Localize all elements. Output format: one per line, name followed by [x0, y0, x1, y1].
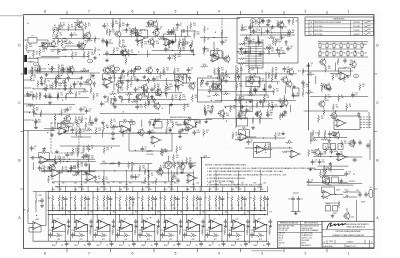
eq cell 630Hz cap Cb — [224, 219, 227, 224]
eq cell 63Hz resistor Ra — [97, 195, 99, 202]
resistor R262 — [75, 116, 77, 123]
resistor R347 — [173, 27, 175, 34]
eq cell rail dots — [177, 241, 178, 242]
eq cell input dot — [164, 214, 165, 215]
ground — [136, 78, 139, 81]
eq band cell 160Hz boundary wire — [137, 192, 139, 215]
wire rail — [46, 78, 80, 80]
capacitor C130 — [266, 28, 269, 33]
eq cell 25Hz resistor Rc — [55, 235, 62, 237]
eq band cell 630Hz boundary wire — [204, 192, 206, 215]
eq cell extra wire — [129, 202, 131, 210]
eq cell 160Hz wire b — [148, 202, 150, 210]
resistor R384 — [162, 149, 164, 156]
legend table outline — [278, 221, 323, 248]
eq cell 1KHz output wire — [243, 225, 245, 241]
capacitor C105 — [176, 23, 179, 28]
resistor R340 — [308, 149, 310, 156]
wire rail — [39, 71, 89, 73]
mid col box B — [241, 100, 253, 112]
wire top rail to r15 — [186, 30, 196, 32]
capacitor C120 — [119, 75, 122, 80]
chain x204 cap — [203, 46, 206, 51]
capacitor C149 — [30, 146, 33, 151]
eq cell 63Hz wire a — [97, 202, 99, 210]
junction — [123, 54, 124, 55]
junction dot — [29, 112, 30, 113]
resistor R317 — [122, 130, 124, 137]
lower mid resistor R39 — [89, 116, 91, 123]
feedback loop rectangle — [129, 133, 172, 151]
wire r15 top — [184, 36, 186, 40]
op-amp U3A — [184, 123, 196, 131]
U7A output wire — [250, 136, 256, 138]
right wire y183 — [339, 183, 362, 185]
resistor R381 — [325, 146, 327, 153]
capacitor C140 — [266, 112, 269, 117]
resistor R285 — [239, 96, 241, 103]
ground — [91, 74, 94, 77]
eq cell 630Hz wire c — [222, 201, 224, 214]
gnd right — [190, 49, 193, 52]
eq cell 100Hz wire b — [125, 202, 127, 210]
capacitor C124 — [136, 104, 139, 109]
box cap C20b — [248, 25, 251, 30]
resistor R284 — [222, 93, 229, 95]
junction — [330, 156, 331, 157]
resistor R367 — [235, 74, 237, 81]
eq cell input dot — [231, 214, 232, 215]
junction dot — [89, 149, 90, 150]
wire rail — [310, 182, 348, 184]
capacitor C104 — [103, 23, 106, 28]
eq cell junction dots 2 — [52, 210, 53, 211]
Q4 emitter resistor — [90, 87, 92, 94]
capacitor C138 — [271, 105, 274, 110]
zone tick bottom — [240, 248, 242, 252]
chain x128 resistor — [127, 70, 129, 77]
eq cell 25Hz output wire — [64, 225, 66, 241]
cluster3 resistor — [143, 86, 145, 93]
cluster2 resistor R22 — [69, 66, 71, 73]
corner wire b — [37, 39, 48, 41]
resistor R229 — [31, 67, 33, 74]
parts right of Q5 resistor — [181, 160, 183, 167]
resistor R245 — [175, 76, 182, 78]
capacitor C174 — [280, 35, 283, 40]
capacitor C141 — [281, 113, 284, 118]
wire x201 lower segment — [201, 157, 203, 186]
resistor R202 — [51, 24, 53, 31]
mid col gnd a — [224, 79, 227, 82]
capacitor C153 — [328, 131, 331, 136]
resistor R263 — [203, 48, 205, 55]
bank lower parts b — [343, 58, 346, 63]
right parts resistor c — [321, 85, 323, 92]
transistor Q31 — [188, 82, 195, 90]
eq cell 250Hz op-amp input wire — [163, 215, 165, 223]
transistor Q50 — [115, 80, 122, 88]
junction dot — [265, 152, 266, 153]
eq cell junction dots 2 — [75, 210, 76, 211]
Q2 top wire — [112, 18, 114, 22]
chain x174 cap — [176, 178, 179, 183]
junction — [68, 170, 69, 171]
resistor R204 — [68, 24, 70, 31]
eq cell 250Hz capacitor Ca — [176, 196, 179, 201]
resistor R270 — [243, 39, 245, 46]
jack wires — [28, 59, 38, 72]
U2A input cap — [50, 127, 55, 130]
eq cell 25Hz resistor Rb — [58, 195, 60, 202]
resistor R227 — [127, 49, 129, 56]
eq cell extra wire — [151, 202, 153, 210]
resistor R215 — [71, 52, 73, 59]
eq cell 400Hz resistor Rb — [193, 195, 195, 202]
resistor R371 — [273, 88, 275, 95]
resistor R338 — [321, 138, 328, 140]
capacitor C173 — [245, 36, 248, 41]
op-amp U15A — [186, 174, 198, 182]
eq cell input dot — [119, 214, 120, 215]
right caps col a — [352, 140, 355, 145]
eq cell boundary vertical lower — [182, 215, 184, 242]
transistor Q46 — [348, 139, 355, 147]
resistor R326 — [62, 166, 64, 173]
eq cell 100Hz resistor Rb — [125, 195, 127, 202]
eq cell extra cap below — [250, 233, 253, 238]
eq cell junction dots 2 — [97, 210, 98, 211]
op-amp U14B — [85, 173, 97, 181]
eq cell input dot — [52, 214, 53, 215]
resistor R405 — [171, 175, 173, 182]
eq slider drop wire — [103, 187, 105, 192]
mid col box A inner line — [198, 89, 222, 91]
wire stub — [310, 133, 312, 143]
ladder IC U9 pin resistors — [239, 43, 246, 45]
resistor R321 — [88, 145, 90, 152]
eq cell 40Hz resistor Rb — [81, 195, 83, 202]
box cap C18 — [261, 19, 264, 24]
junction dot — [70, 68, 71, 69]
resistor R375 — [85, 122, 87, 129]
eq cell below-rail wire — [212, 241, 214, 244]
eq cell 160Hz wire c — [154, 201, 156, 214]
wire stub — [310, 132, 312, 140]
mid col resistor chain c — [218, 82, 220, 89]
junction — [213, 37, 214, 38]
eq cell 250Hz wire a — [164, 202, 166, 210]
eq cell opamp extra resistor — [134, 228, 136, 235]
eq cell 40Hz output wire — [87, 225, 89, 241]
junction dot — [259, 30, 260, 31]
switch box S1 — [154, 122, 162, 129]
eq cell 160Hz gnd — [157, 224, 160, 227]
junction dot — [47, 132, 48, 133]
ground — [152, 123, 155, 126]
mid col box A inner resistor — [200, 80, 202, 87]
eq cell 100Hz gnd — [134, 224, 137, 227]
ladder IC U9 left pins — [246, 43, 250, 45]
U4B feedback wire — [103, 74, 115, 83]
resistor R380 — [278, 50, 280, 57]
resistor R259 — [33, 107, 35, 114]
eq cell 100Hz output wire — [131, 225, 133, 241]
cluster2 resistor R27 — [57, 93, 59, 100]
wire rail — [250, 32, 294, 34]
vertical chain x107 resistor R9 — [106, 40, 108, 47]
eq cell 630Hz feedback wire — [209, 225, 222, 231]
resistor R242 — [163, 67, 165, 74]
resistor R355 — [37, 80, 39, 87]
box internal wire b — [257, 35, 259, 42]
eq cell boundary vertical lower — [70, 215, 72, 242]
ladder IC U9 pin rows — [250, 43, 262, 45]
diode CR14 — [67, 76, 70, 82]
transistor Q35 — [287, 68, 294, 76]
junction dot — [159, 169, 160, 170]
junction dot — [246, 102, 247, 103]
junction — [31, 39, 32, 40]
diode CR12 — [106, 41, 109, 47]
resistor R297 — [320, 85, 327, 87]
resistor R368 — [250, 73, 252, 80]
eq cell below-rail cap — [110, 241, 113, 246]
junction — [328, 182, 329, 183]
U6A feedback wire — [211, 51, 223, 59]
output stage wire h — [325, 202, 339, 204]
eq cell 1.6KHz capacitor Ca — [266, 196, 269, 201]
eq cell 630Hz wire b — [215, 202, 217, 210]
chain x128 gnd — [126, 79, 129, 82]
transistor Q38 — [281, 76, 288, 84]
eq cell input dot — [141, 214, 142, 215]
resistor R299 — [306, 92, 313, 94]
eq cell 250Hz wire c — [177, 201, 179, 214]
cluster3 cap — [150, 87, 153, 92]
box resistor R43 — [241, 24, 243, 31]
lower-left gnd — [34, 126, 37, 129]
eq cell extra cap below — [94, 233, 97, 238]
resistor row y163 a — [100, 162, 107, 164]
resistor R267 — [277, 20, 279, 27]
rail y104 — [28, 104, 75, 106]
output caps col x360 — [358, 192, 361, 197]
eq cell 63Hz capacitor Ca — [109, 196, 112, 201]
resistor R237 — [57, 92, 59, 99]
capacitor C161 — [77, 43, 80, 48]
resistor R312 — [62, 126, 69, 128]
eq cell boundary vertical lower — [137, 215, 139, 242]
eq slider drop wire — [170, 187, 172, 192]
resistor bank mid wire — [320, 48, 362, 50]
wire rail — [67, 170, 163, 172]
op-amp U2A — [57, 127, 69, 135]
cluster2 gnd c — [48, 101, 51, 104]
capacitor C155 — [330, 149, 333, 154]
eq band mid bus 2 — [48, 214, 266, 216]
junction dot — [173, 204, 174, 205]
chain x145 resistor2 — [144, 177, 146, 184]
resistor R342 — [325, 168, 327, 175]
diode CR26 — [211, 105, 214, 111]
eq cell 1KHz cap Cb — [246, 219, 249, 224]
wire rail — [215, 73, 297, 75]
resistor R348 — [137, 39, 139, 46]
junction dot — [260, 114, 261, 115]
ground — [105, 85, 108, 88]
mid col resistor f — [256, 101, 258, 108]
eq cell 400Hz resistor Rc — [190, 235, 197, 237]
capacitor C131 — [248, 39, 251, 44]
U4B feedback resistor — [105, 73, 112, 75]
junction dot — [289, 147, 290, 148]
resistor R311 — [195, 121, 197, 128]
eq cell 40Hz capacitor Ca — [86, 196, 89, 201]
ground — [292, 85, 295, 88]
resistor R325 — [43, 166, 45, 173]
eq cell 250Hz wire d — [164, 227, 167, 236]
wire stub — [258, 37, 260, 47]
resistor R247 — [117, 87, 119, 94]
junction dot — [99, 54, 100, 55]
resistor R333 — [274, 133, 276, 140]
U7A feedback resistor — [241, 129, 248, 131]
capacitor C127 — [85, 108, 88, 113]
resistor R349 — [158, 38, 165, 40]
U1A feedback resistor — [138, 29, 145, 31]
diode CR35 — [189, 44, 192, 50]
resistor R319 — [72, 148, 74, 155]
capacitor C164 — [105, 39, 108, 44]
wire stub — [32, 67, 34, 76]
chain x174 resistor — [173, 172, 175, 179]
resistor R246 — [178, 76, 180, 83]
junction — [30, 61, 31, 62]
eq cell 400Hz wire c — [199, 201, 201, 214]
eq cell 630Hz resistor Rb — [215, 195, 217, 202]
resistor R332 — [232, 132, 234, 139]
ground — [181, 128, 184, 131]
resistor bank bus wire bottom — [318, 56, 368, 58]
resistor bank row1 — [319, 42, 321, 49]
chain x122 resistor — [121, 70, 123, 77]
cap C21 — [84, 162, 87, 167]
transistor Q29 — [145, 66, 152, 74]
eq cell 63Hz resistor Rb — [103, 195, 105, 202]
output resistor R151 — [343, 196, 350, 198]
U12 output parts — [352, 158, 357, 161]
eq cell 160Hz junction dots — [142, 191, 143, 192]
transistor Q1 — [78, 42, 85, 50]
resistor R359 — [160, 72, 162, 79]
resistor R258 — [183, 104, 185, 111]
eq cell boundary vertical lower — [92, 215, 94, 242]
U4A feedback wire — [39, 153, 50, 160]
junction dot — [63, 161, 64, 162]
wire mid col a — [236, 94, 266, 96]
input stage cap C28 — [40, 198, 43, 203]
resistor R223 — [119, 39, 121, 46]
eq cell 250Hz cap Cb — [179, 219, 182, 224]
input pot VR2 — [57, 48, 61, 55]
ground — [189, 165, 192, 168]
capacitor C101 — [34, 34, 37, 39]
ground — [101, 121, 104, 124]
resistor R329 — [176, 146, 178, 153]
boxed op-amp U7B enclosure — [254, 143, 271, 158]
cluster2 gnd b — [63, 87, 66, 90]
transistor Q27 — [102, 66, 109, 74]
wire stub — [250, 86, 252, 93]
input stage wire b — [35, 205, 37, 212]
transistor Q47 — [323, 177, 330, 185]
lower cluster resistor R35 — [128, 96, 130, 103]
capacitor C154 — [319, 151, 322, 156]
wire rail — [307, 184, 353, 186]
box bottom wire — [237, 51, 251, 53]
mid col box A inner cap — [205, 81, 208, 86]
cluster2 resistor R23 — [44, 78, 46, 85]
wire rail — [244, 52, 286, 54]
capacitor C159 — [307, 179, 310, 184]
U1B feedback resistor — [166, 33, 173, 35]
capacitor C168 — [234, 97, 237, 102]
resistor R400 — [48, 176, 50, 183]
U11A bubble — [353, 74, 358, 78]
box cap C19 — [266, 19, 271, 22]
eq cell 63Hz gnd — [112, 224, 115, 227]
U2B ref bubble — [130, 121, 135, 125]
left connector stub 6 — [24, 119, 31, 121]
chain x145 resistor — [144, 168, 146, 175]
resistor R208 — [56, 32, 58, 39]
resistor R281 — [258, 78, 260, 85]
transistor Q51 — [211, 82, 218, 90]
feedback loop resistor R44 — [146, 132, 153, 134]
wire rail — [27, 50, 35, 52]
vertical wire to title block — [356, 200, 358, 221]
eq cell rail dots — [65, 241, 66, 242]
resistor R257 — [144, 101, 146, 108]
eq cell 1KHz resistor Rb — [237, 195, 239, 202]
eq cell rail dots — [154, 241, 155, 242]
eq cell boundary vertical lower — [204, 215, 206, 242]
resistor R272 — [275, 39, 277, 46]
eq cell 40Hz wire c — [87, 201, 89, 214]
transistor Q57 — [155, 88, 162, 96]
eq cell extra resistor Rd — [84, 195, 86, 202]
lower right resistor row b — [330, 165, 332, 172]
right resistor bank 2b — [318, 130, 320, 137]
eq slider drop wire — [215, 187, 217, 192]
wire rail — [302, 70, 353, 72]
junction dot — [154, 145, 155, 146]
eq cell 25Hz op-amp U6 — [52, 220, 66, 230]
wire rail — [28, 61, 34, 63]
resistor R278 — [237, 68, 239, 75]
eq cell input dot — [97, 214, 98, 215]
eq cell 100Hz cap Cb — [134, 219, 137, 224]
eq cell slider short vertical a — [253, 187, 255, 192]
capacitor C179 — [141, 147, 144, 152]
eq cell 250Hz gnd — [179, 224, 182, 227]
eq cell 250Hz wire b — [170, 202, 172, 210]
capacitor C163 — [156, 26, 159, 31]
resistor R358 — [109, 72, 116, 74]
capacitor C121 — [152, 77, 155, 82]
eq slider drop wire — [148, 187, 150, 192]
